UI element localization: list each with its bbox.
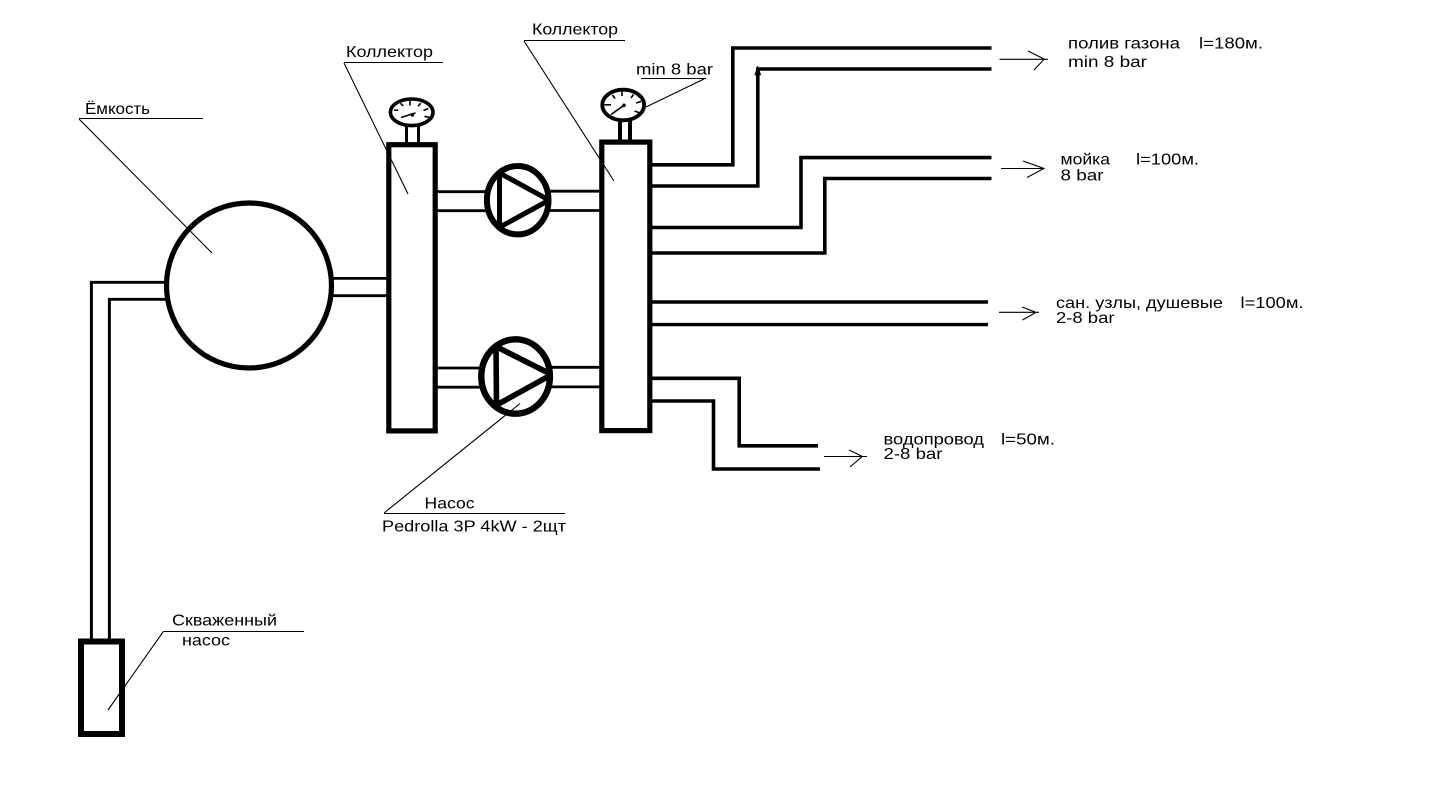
well pump rectangle xyxy=(81,642,122,735)
tank (Ёмкость) circle xyxy=(167,203,332,368)
svg-text:Скваженный: Скваженный xyxy=(172,613,277,630)
pump P2 triangle xyxy=(496,345,551,406)
label полив газона l=180м. / min 8 bar xyxy=(1068,36,1263,72)
outlet 2 pipe B xyxy=(650,179,992,254)
svg-text:min 8 bar: min 8 bar xyxy=(1068,54,1148,71)
leader line to collector 1 xyxy=(344,63,408,194)
pump P2 circle xyxy=(481,339,550,413)
svg-text:2-8 bar: 2-8 bar xyxy=(1056,310,1115,327)
svg-text:Коллектор: Коллектор xyxy=(346,44,433,61)
label Коллектор (left) xyxy=(344,44,443,63)
svg-text:Коллектор: Коллектор xyxy=(532,22,618,39)
svg-text:2-8 bar: 2-8 bar xyxy=(884,446,944,463)
label min 8 bar (gauge) xyxy=(636,62,714,79)
svg-text:l=180м.: l=180м. xyxy=(1199,36,1263,53)
outlet 2 pipe A xyxy=(650,158,992,228)
pipe tank to well (inner horizontal) xyxy=(108,298,170,301)
arrow 1 xyxy=(1000,51,1049,70)
label водопровод l=50м. / 2-8 bar xyxy=(884,431,1056,463)
label Скваженный насос xyxy=(163,613,304,650)
gauge G2 stem xyxy=(618,120,622,143)
flow arrowhead on outlet1 B xyxy=(754,65,761,75)
collector 1 body xyxy=(389,145,435,431)
pipe pump2 to collector2 xyxy=(548,366,602,369)
label Коллектор (right) xyxy=(524,22,625,41)
outlet 3 pipe A xyxy=(650,300,988,303)
svg-text:l=100м.: l=100м. xyxy=(1136,151,1199,168)
pipe tank to well (outer horizontal) xyxy=(90,281,168,284)
label Насос + Pedrolla xyxy=(382,496,567,536)
gauge G1 needle xyxy=(401,113,416,118)
pipe tank to collector 1 (top line) xyxy=(330,277,390,280)
leader line to gauge G2 xyxy=(646,79,704,107)
arrow 4 xyxy=(824,450,867,467)
label сан. узлы, душевые l=100м. / 2-8 bar xyxy=(1056,295,1304,327)
gauge G1 stem xyxy=(405,126,408,145)
outlet 4 pipe B (down) xyxy=(650,401,820,469)
outlet 3 pipe B xyxy=(650,323,988,326)
svg-text:Насос: Насос xyxy=(425,496,475,513)
outlet 1 pipe A (polyline up) xyxy=(650,48,992,165)
outlet 1 pipe B (polyline up) xyxy=(650,69,992,186)
leader line to collector 2 xyxy=(524,41,614,181)
pipe tank to well (inner vertical) xyxy=(108,298,111,641)
arrow 3 xyxy=(999,307,1039,320)
pipe collector1 to pump1 xyxy=(436,190,490,193)
svg-text:Ёмкость: Ёмкость xyxy=(85,100,150,118)
pump P1 triangle xyxy=(500,171,549,230)
svg-text:min 8 bar: min 8 bar xyxy=(636,62,714,79)
leader line to well pump xyxy=(108,632,163,710)
svg-text:l=100м.: l=100м. xyxy=(1241,295,1304,312)
pipe collector1 to pump2 xyxy=(436,367,484,370)
gauge G1 dial xyxy=(390,99,433,126)
outlet 4 pipe A (down) xyxy=(650,378,818,446)
label Ёмкость xyxy=(79,100,203,119)
leader line to pump2 xyxy=(384,404,520,514)
gauge G2 dial xyxy=(602,90,644,121)
pipe tank to well (outer vertical) xyxy=(90,281,93,641)
leader line to tank xyxy=(79,119,212,253)
gauge G2 ticks xyxy=(605,92,642,114)
pipe pump1 to collector2 xyxy=(546,190,602,193)
svg-text:l=50м.: l=50м. xyxy=(1001,431,1055,448)
svg-text:насос: насос xyxy=(182,633,230,650)
gauge G1 ticks xyxy=(394,101,430,118)
label мойка l=100м. / 8 bar xyxy=(1061,151,1200,184)
arrow 2 xyxy=(1001,161,1045,178)
svg-text:мойка: мойка xyxy=(1061,151,1111,168)
svg-text:8 bar: 8 bar xyxy=(1061,167,1105,184)
pipe tank to collector 1 (bottom line) xyxy=(330,294,390,297)
pump P1 circle xyxy=(487,166,549,234)
gauge G2 needle xyxy=(611,105,624,114)
svg-text:Pedrolla 3P 4kW - 2щт: Pedrolla 3P 4kW - 2щт xyxy=(382,519,567,536)
collector 2 body xyxy=(602,142,650,431)
svg-text:полив газона: полив газона xyxy=(1068,36,1180,53)
